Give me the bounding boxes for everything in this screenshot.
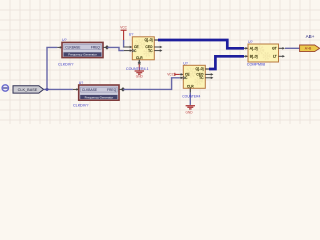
svg-text:B[..0]: B[..0]: [250, 54, 258, 58]
wire main: [44, 88, 73, 90]
svg-text:CLR: CLR: [136, 56, 143, 60]
svg-text:FREQ: FREQ: [91, 46, 101, 50]
svg-text:GND: GND: [136, 74, 144, 78]
svg-text:GND: GND: [185, 111, 193, 115]
power VCC1: [120, 26, 127, 40]
bus counter1 Q to comparator A: [158, 40, 244, 48]
pin Q counter2: [205, 68, 209, 70]
frequency generator U3: [79, 85, 119, 100]
pin C counter1: [124, 49, 133, 52]
ground GND1: [135, 64, 144, 74]
svg-text:GT: GT: [272, 46, 277, 50]
svg-text:U?: U?: [62, 38, 67, 42]
pin CEO counter2: [205, 73, 213, 76]
wire VCC1 to CE: [123, 40, 125, 47]
pin Q counter1: [154, 39, 158, 41]
ground GND2: [186, 106, 195, 109]
pin CLR counter2: [189, 88, 191, 92]
svg-text:Q[..0]: Q[..0]: [144, 38, 152, 42]
pin TC counter1: [154, 49, 162, 52]
svg-text:U?: U?: [248, 40, 253, 44]
power VCC2: [167, 73, 180, 77]
pin C counter2: [180, 77, 184, 80]
svg-text:U?: U?: [183, 61, 188, 65]
pin TC counter2: [205, 77, 213, 80]
svg-text:TC: TC: [199, 76, 204, 80]
pin LT comparator: [279, 55, 285, 58]
pin B comparator: [244, 55, 248, 58]
sheet background: [0, 0, 320, 124]
svg-text:Frequency Generator: Frequency Generator: [85, 95, 114, 99]
svg-text:TC: TC: [148, 49, 153, 53]
wire CLR2 to ground: [189, 93, 191, 105]
svg-text:A[..0]: A[..0]: [250, 46, 258, 50]
pin FREQ U1: [103, 45, 109, 50]
pin CLKBASE U1: [57, 46, 62, 49]
pin FREQ U3: [119, 87, 125, 92]
pin CLR counter1: [138, 60, 140, 64]
wire junction to U1: [47, 47, 57, 89]
wire U1 FREQ to counter1 C: [107, 47, 124, 50]
svg-text:CLKBASE: CLKBASE: [82, 88, 98, 92]
svg-text:VCC: VCC: [120, 26, 127, 30]
port CLK_BASE: [13, 86, 44, 93]
wire GT to port: [285, 47, 300, 49]
port A>B: [300, 45, 320, 52]
svg-text:LT: LT: [273, 54, 277, 58]
svg-text:Frequency Generator: Frequency Generator: [68, 53, 97, 57]
junction: [46, 88, 49, 91]
pin CE counter1: [124, 46, 133, 49]
counter U4: [183, 65, 205, 88]
connector icon: [2, 85, 8, 91]
svg-text:CLKBASE: CLKBASE: [65, 46, 81, 50]
svg-text:VCC: VCC: [167, 73, 174, 77]
wire U3 FREQ to counter2 C: [123, 78, 180, 90]
comparator U5: [248, 44, 279, 62]
svg-text:FREQ: FREQ: [107, 88, 117, 92]
frequency generator U1: [62, 42, 103, 57]
pin CLKBASE U3: [73, 88, 79, 91]
svg-text:Q[..0]: Q[..0]: [195, 67, 203, 71]
svg-text:A>B: A>B: [305, 47, 312, 51]
svg-text:CLR: CLR: [187, 85, 194, 89]
bus counter2 Q to comparator B: [209, 56, 244, 69]
svg-text:CLKDIV?: CLKDIV?: [73, 104, 88, 108]
svg-text:U?: U?: [79, 81, 84, 85]
svg-text:COUNTER4: COUNTER4: [182, 94, 200, 98]
svg-text:AB+: AB+: [306, 34, 315, 39]
counter U2: [132, 37, 154, 60]
pin CEO counter1: [154, 46, 162, 49]
svg-text:COUNTER4.1: COUNTER4.1: [126, 67, 149, 71]
svg-text:CLK_BASE: CLK_BASE: [18, 88, 38, 92]
svg-text:COMPM08: COMPM08: [247, 62, 265, 66]
pin GT comparator: [279, 47, 285, 50]
svg-text:CLKDIV?: CLKDIV?: [58, 62, 73, 66]
pin CE counter2: [180, 73, 184, 76]
svg-text:U?: U?: [129, 33, 134, 37]
pin A comparator: [244, 47, 248, 50]
